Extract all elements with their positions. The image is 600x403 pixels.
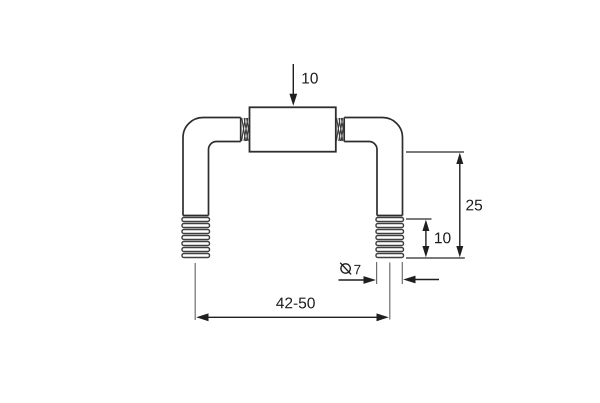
extension line left leg centre bbox=[194, 263, 196, 320]
label 10 right bbox=[435, 232, 450, 243]
extension line bottom right bbox=[406, 257, 465, 259]
right bellows hatch bbox=[336, 118, 344, 141]
right tube elbow outline bbox=[344, 118, 402, 216]
left bellows hatch bbox=[242, 118, 250, 141]
dimension 25 line bbox=[456, 153, 463, 258]
diameter leader arrow left bbox=[339, 276, 376, 284]
top force arrow bbox=[289, 64, 297, 106]
extension line mid right bbox=[406, 218, 432, 220]
label 7 bbox=[354, 265, 360, 274]
right barbed ribs bbox=[376, 218, 404, 258]
extension line top right bbox=[406, 151, 464, 153]
extension line right leg right edge bbox=[401, 262, 403, 284]
dimension 42-50 line bbox=[196, 313, 389, 321]
left tube elbow outline bbox=[183, 118, 241, 216]
dimension 10 line right bbox=[422, 220, 429, 258]
label 25 bbox=[466, 200, 482, 211]
label 42-50 bbox=[276, 297, 315, 308]
left barbed ribs bbox=[182, 218, 210, 258]
extension line right leg centre bbox=[389, 263, 391, 320]
extension line right leg left edge bbox=[376, 262, 378, 284]
center block body bbox=[250, 107, 336, 151]
diameter leader arrow right bbox=[403, 276, 439, 284]
diameter symbol bbox=[340, 263, 351, 275]
label 10 top bbox=[302, 73, 317, 84]
